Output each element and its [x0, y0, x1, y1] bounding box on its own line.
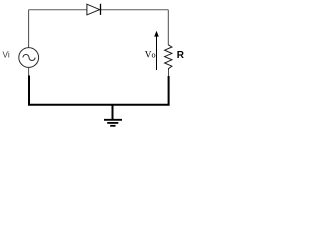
- svg-text:R: R: [177, 50, 185, 61]
- svg-text:Vo: Vo: [145, 51, 156, 61]
- svg-text:Vi: Vi: [3, 51, 10, 60]
